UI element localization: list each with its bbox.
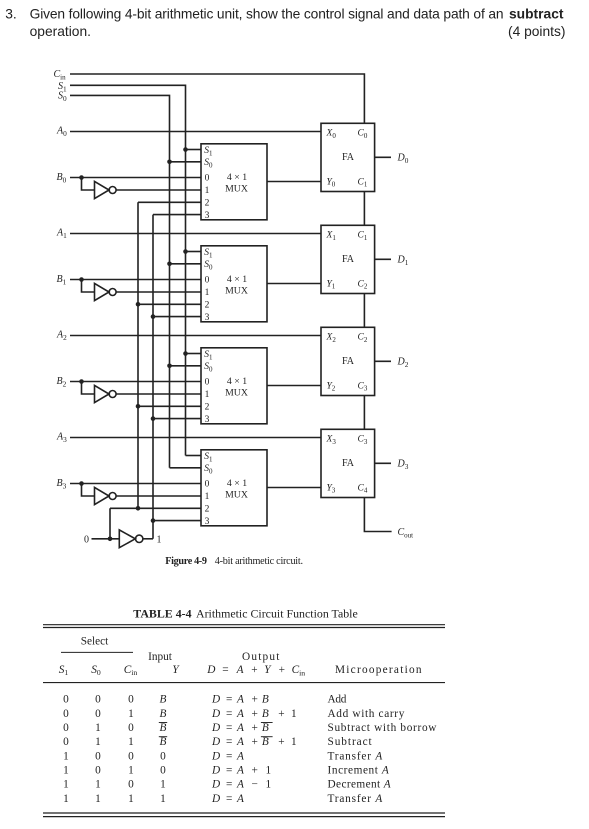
MUX1 pin label 3 xyxy=(205,211,210,221)
svg-text:2: 2 xyxy=(205,301,210,311)
MUX2 pin label S1 xyxy=(204,248,213,259)
svg-text:1: 1 xyxy=(205,390,210,400)
svg-text:Subtract with borrow: Subtract with borrow xyxy=(328,722,438,734)
node S1 bus junction at MUX1 xyxy=(183,147,188,152)
wire MUX3 pin 3 stub xyxy=(153,418,201,420)
MUX4 pin label 0 xyxy=(205,480,210,490)
table header rule xyxy=(43,682,445,684)
node S0 bus junction at MUX3 xyxy=(167,364,172,369)
svg-text:S1: S1 xyxy=(204,146,213,157)
wire constant-1 bus xyxy=(152,215,154,539)
svg-text:0: 0 xyxy=(63,736,69,748)
wire sum output D2 xyxy=(375,360,391,362)
wire B0 tap to inverter xyxy=(82,178,95,191)
FA1 pin label C0 (carry in) xyxy=(358,129,368,140)
svg-text:0: 0 xyxy=(63,694,69,706)
FA1 pin label X0 xyxy=(326,129,337,140)
svg-text:MUX: MUX xyxy=(225,489,248,500)
label Cout xyxy=(398,527,414,539)
MUX2 pin label 0 xyxy=(205,276,210,286)
FA1 label xyxy=(342,152,355,163)
svg-text:0: 0 xyxy=(95,694,101,706)
svg-text:Output: Output xyxy=(242,651,281,663)
figure caption xyxy=(165,556,302,567)
FA4 pin label X3 xyxy=(326,435,337,446)
svg-text:Cin: Cin xyxy=(54,69,67,81)
MUX3 pin label 2 xyxy=(205,403,210,413)
full adder FA1 body xyxy=(321,123,375,191)
MUX2 pin label S0 xyxy=(204,260,213,271)
svg-text:S1: S1 xyxy=(204,248,213,259)
MUX4 pin label 1 xyxy=(205,492,210,502)
svg-text:Cout: Cout xyxy=(398,527,414,539)
svg-text:subtract: subtract xyxy=(509,6,564,21)
svg-text:1: 1 xyxy=(95,793,101,805)
svg-text:D3: D3 xyxy=(397,459,409,471)
MUX4 label 4x1 MUX xyxy=(225,478,248,501)
svg-text:S0: S0 xyxy=(204,158,213,169)
label Cin xyxy=(54,69,67,81)
FA2 label xyxy=(342,254,355,265)
wire constant-0 bus xyxy=(137,202,139,508)
MUX2 label 4x1 MUX xyxy=(225,274,248,297)
svg-text:1: 1 xyxy=(63,750,69,762)
wire MUX1 select S0 stub xyxy=(170,161,202,163)
svg-text:Microoperation: Microoperation xyxy=(335,664,423,676)
svg-text:3: 3 xyxy=(205,211,210,221)
svg-text:Y1: Y1 xyxy=(327,279,336,290)
label constant 1 xyxy=(157,534,162,545)
label D2 xyxy=(397,357,409,369)
table row 7: 1 1 0 xyxy=(63,779,391,791)
wire MUX2 pin 2 stub xyxy=(138,303,201,305)
svg-text:Given following 4-bit arithmet: Given following 4-bit arithmetic unit, s… xyxy=(30,6,504,21)
node 0-bus junction at MUX3 xyxy=(136,404,141,409)
label S1 xyxy=(58,81,67,93)
svg-text:4 × 1: 4 × 1 xyxy=(227,478,247,489)
MUX3 label 4x1 MUX xyxy=(225,376,248,399)
svg-text:3.: 3. xyxy=(5,6,17,21)
svg-text:C2: C2 xyxy=(358,333,368,344)
svg-text:B: B xyxy=(160,694,167,706)
svg-text:FA: FA xyxy=(342,356,355,367)
wire B0 to MUX1 pin 0 xyxy=(70,177,201,179)
svg-text:Add: Add xyxy=(328,694,347,706)
svg-text:B: B xyxy=(160,736,167,748)
svg-text:4 × 1: 4 × 1 xyxy=(227,274,247,285)
MUX1 pin label S1 xyxy=(204,146,213,157)
svg-text:X2: X2 xyxy=(326,333,337,344)
svg-text:4-bit arithmetic circuit.: 4-bit arithmetic circuit. xyxy=(215,556,303,567)
svg-text:Select: Select xyxy=(81,635,109,647)
label B0 xyxy=(57,172,67,184)
inverter (NOT gate) for B3 xyxy=(95,487,117,504)
svg-text:1: 1 xyxy=(128,708,134,720)
problem statement text xyxy=(5,6,565,39)
svg-text:Add with carry: Add with carry xyxy=(328,708,406,720)
wire carry C3 from FA3 to FA4 xyxy=(363,396,365,430)
svg-text:D=A−1: D=A−1 xyxy=(211,779,271,791)
svg-text:X1: X1 xyxy=(326,231,337,242)
wire A2 to FA3 input X2 xyxy=(70,335,321,337)
label constant 0 xyxy=(84,534,89,545)
svg-text:D=A+Y+Cin: D=A+Y+Cin xyxy=(206,664,305,678)
svg-text:FA: FA xyxy=(342,152,355,163)
inverter (NOT gate) for B1 xyxy=(95,283,117,300)
FA3 pin label X2 xyxy=(326,333,337,344)
table title xyxy=(133,607,357,621)
svg-text:X3: X3 xyxy=(326,435,337,446)
svg-text:C4: C4 xyxy=(358,483,368,494)
node B0 junction xyxy=(79,175,84,180)
FA4 pin label C4 (carry out) xyxy=(358,483,368,494)
svg-text:2: 2 xyxy=(205,403,210,413)
svg-text:D0: D0 xyxy=(397,153,409,165)
FA3 label xyxy=(342,356,355,367)
table header Select xyxy=(61,635,133,652)
wire MUX1 select S1 stub xyxy=(186,149,202,151)
node B3 junction xyxy=(79,481,84,486)
MUX1 pin label 0 xyxy=(205,174,210,184)
wire sum output D0 xyxy=(375,156,391,158)
mux U2 4x1 MUX body xyxy=(201,246,267,322)
svg-text:X0: X0 xyxy=(326,129,337,140)
table row 4: 0 1 1 xyxy=(63,736,372,748)
MUX1 pin label 2 xyxy=(205,199,210,209)
svg-text:2: 2 xyxy=(205,505,210,515)
svg-text:FA: FA xyxy=(342,458,355,469)
svg-text:D=A+B+1: D=A+B+1 xyxy=(211,708,297,720)
svg-text:C1: C1 xyxy=(358,231,368,242)
svg-text:Increment A: Increment A xyxy=(328,765,390,777)
svg-text:1: 1 xyxy=(63,779,69,791)
wire MUX2 select S0 stub xyxy=(170,263,202,265)
svg-text:0: 0 xyxy=(128,750,134,762)
svg-text:D=A+1: D=A+1 xyxy=(211,765,271,777)
svg-text:1: 1 xyxy=(157,534,162,545)
FA4 pin label Y3 xyxy=(327,483,336,494)
label A1 xyxy=(56,228,67,240)
full adder FA2 body xyxy=(321,225,375,293)
svg-text:Cin: Cin xyxy=(124,664,138,677)
wire carry C1 from FA1 to FA2 xyxy=(363,192,365,226)
label D3 xyxy=(397,459,409,471)
MUX4 pin label 2 xyxy=(205,505,210,515)
mux U4 4x1 MUX body xyxy=(201,450,267,526)
wire carry out C4 from FA4 xyxy=(364,498,391,532)
node 1-bus junction at MUX4 xyxy=(151,518,156,523)
wire inverted B3 to MUX4 pin 1 xyxy=(116,495,201,497)
wire constant 1 to 1-bus xyxy=(143,538,153,540)
svg-text:Y2: Y2 xyxy=(327,381,336,392)
table bottom double rule xyxy=(43,813,445,817)
table top double rule xyxy=(43,625,445,628)
MUX2 pin label 2 xyxy=(205,301,210,311)
label A0 xyxy=(56,126,67,138)
svg-text:0: 0 xyxy=(128,779,134,791)
wire MUX4 pin 3 stub xyxy=(153,520,201,522)
wire A3 to FA4 input X3 xyxy=(70,437,321,439)
svg-text:B1: B1 xyxy=(57,274,67,286)
svg-text:C3: C3 xyxy=(358,435,368,446)
wire inverted B0 to MUX1 pin 1 xyxy=(116,189,201,191)
FA4 label xyxy=(342,458,355,469)
svg-text:B2: B2 xyxy=(57,376,67,388)
svg-text:(4 points): (4 points) xyxy=(508,24,566,39)
svg-text:0: 0 xyxy=(95,765,101,777)
wire MUX4 output to FA4 input Y3 xyxy=(267,487,321,489)
svg-text:0: 0 xyxy=(128,722,134,734)
svg-text:1: 1 xyxy=(205,288,210,298)
label B1 xyxy=(57,274,67,286)
node S1 bus junction at MUX2 xyxy=(183,249,188,254)
label B2 xyxy=(57,376,67,388)
table row 3: 0 1 0 xyxy=(63,722,437,734)
svg-text:A0: A0 xyxy=(56,126,67,138)
svg-text:Y0: Y0 xyxy=(327,177,336,188)
node 1-bus junction at MUX2 xyxy=(151,314,156,319)
svg-text:1: 1 xyxy=(63,765,69,777)
MUX1 label 4x1 MUX xyxy=(225,172,248,195)
svg-text:1: 1 xyxy=(95,722,101,734)
MUX3 pin label 0 xyxy=(205,378,210,388)
wire constant 0 line xyxy=(92,538,120,540)
svg-text:S0: S0 xyxy=(204,260,213,271)
svg-text:1: 1 xyxy=(205,492,210,502)
node B2 junction xyxy=(79,379,84,384)
label B3 xyxy=(57,478,67,490)
svg-text:0: 0 xyxy=(95,750,101,762)
svg-text:A3: A3 xyxy=(56,432,67,444)
svg-text:Transfer A: Transfer A xyxy=(328,793,384,805)
MUX2 pin label 3 xyxy=(205,313,210,323)
svg-text:TABLE 4-4: TABLE 4-4 xyxy=(133,607,191,621)
wire MUX3 select S0 stub xyxy=(170,365,202,367)
node 0-bus junction at MUX4 xyxy=(136,506,141,511)
node S0 bus junction at MUX1 xyxy=(167,160,172,165)
wire carry C2 from FA2 to FA3 xyxy=(363,294,365,328)
wire B3 to MUX4 pin 0 xyxy=(70,483,201,485)
wire S0 bus xyxy=(70,95,170,467)
label D1 xyxy=(397,255,409,267)
svg-text:MUX: MUX xyxy=(225,387,248,398)
wire MUX4 pin 2 stub joining 0-bus and constant 0 xyxy=(110,507,201,509)
inverter (NOT gate) for B0 xyxy=(95,181,117,198)
MUX3 pin label 3 xyxy=(205,415,210,425)
wire inverted B2 to MUX3 pin 1 xyxy=(116,393,201,395)
table header Input xyxy=(148,651,173,663)
FA1 pin label C1 (carry out) xyxy=(358,177,368,188)
svg-text:0: 0 xyxy=(205,480,210,490)
inverter (NOT gate) for B2 xyxy=(95,385,117,402)
svg-text:C1: C1 xyxy=(358,177,368,188)
MUX2 pin label 1 xyxy=(205,288,210,298)
svg-text:S1: S1 xyxy=(204,452,213,463)
svg-text:0: 0 xyxy=(128,694,134,706)
table row 6: 1 0 1 xyxy=(63,765,389,777)
wire B2 to MUX3 pin 0 xyxy=(70,381,201,383)
svg-text:MUX: MUX xyxy=(225,285,248,296)
svg-text:C0: C0 xyxy=(358,129,368,140)
svg-text:D1: D1 xyxy=(397,255,409,267)
wire A1 to FA2 input X1 xyxy=(70,233,321,235)
table row 2: 0 0 1 xyxy=(63,708,405,720)
svg-text:S0: S0 xyxy=(91,664,101,677)
svg-text:0: 0 xyxy=(160,750,166,762)
label D0 xyxy=(397,153,409,165)
inverter (NOT gate) making constant 1 xyxy=(119,530,143,548)
svg-text:C3: C3 xyxy=(358,381,368,392)
svg-text:D=A: D=A xyxy=(211,750,244,762)
svg-text:0: 0 xyxy=(205,378,210,388)
FA2 pin label C1 (carry in) xyxy=(358,231,368,242)
wire constant 0 up to MUX4 pin 2 xyxy=(109,508,111,539)
FA1 pin label Y0 xyxy=(327,177,336,188)
MUX3 pin label S1 xyxy=(204,350,213,361)
MUX4 pin label S1 xyxy=(204,452,213,463)
table row 5: 1 0 0 xyxy=(63,750,383,762)
mux U1 4x1 MUX body xyxy=(201,144,267,220)
wire MUX1 pin 3 stub to 1-bus xyxy=(153,214,201,216)
node S0 bus junction at MUX2 xyxy=(167,262,172,267)
svg-text:0: 0 xyxy=(63,708,69,720)
table row 8: 1 1 1 xyxy=(63,793,383,805)
MUX1 pin label S0 xyxy=(204,158,213,169)
svg-text:0: 0 xyxy=(205,174,210,184)
table row 1: 0 0 0 xyxy=(63,694,347,706)
full adder FA4 body xyxy=(321,429,375,497)
svg-text:3: 3 xyxy=(205,415,210,425)
svg-text:1: 1 xyxy=(128,736,134,748)
svg-text:1: 1 xyxy=(128,765,134,777)
wire A0 to FA1 input X0 xyxy=(70,131,321,133)
svg-text:1: 1 xyxy=(128,793,134,805)
node constant-0 junction xyxy=(108,537,113,542)
svg-text:1: 1 xyxy=(95,779,101,791)
svg-text:B0: B0 xyxy=(57,172,67,184)
wire MUX2 select S1 stub xyxy=(186,251,202,253)
svg-text:0: 0 xyxy=(95,708,101,720)
label A3 xyxy=(56,432,67,444)
wire MUX3 select S1 stub xyxy=(186,353,202,355)
svg-text:1: 1 xyxy=(205,186,210,196)
FA2 pin label Y1 xyxy=(327,279,336,290)
wire sum output D1 xyxy=(375,258,391,260)
node 0-bus junction at MUX2 xyxy=(136,302,141,307)
svg-text:S0: S0 xyxy=(204,362,213,373)
svg-text:0: 0 xyxy=(63,722,69,734)
full adder FA3 body xyxy=(321,327,375,395)
svg-text:B: B xyxy=(160,708,167,720)
svg-text:D=A+B+1: D=A+B+1 xyxy=(211,736,297,748)
svg-text:1: 1 xyxy=(160,793,166,805)
svg-text:Figure 4-9: Figure 4-9 xyxy=(165,556,207,567)
wire MUX1 pin 2 stub to 0-bus xyxy=(138,201,201,203)
wire B1 tap to inverter xyxy=(82,280,95,293)
wire MUX4 select S0 stub xyxy=(170,467,202,469)
wire B3 tap to inverter xyxy=(82,484,95,497)
wire Cin to FA1 carry input C0 xyxy=(70,74,364,123)
svg-text:Y3: Y3 xyxy=(327,483,336,494)
svg-text:2: 2 xyxy=(205,199,210,209)
svg-text:1: 1 xyxy=(95,736,101,748)
FA4 pin label C3 (carry in) xyxy=(358,435,368,446)
svg-text:Y: Y xyxy=(172,664,180,676)
table header Output xyxy=(242,651,281,663)
svg-text:Transfer A: Transfer A xyxy=(328,750,384,762)
svg-text:4 × 1: 4 × 1 xyxy=(227,376,247,387)
node S1 bus junction at MUX3 xyxy=(183,351,188,356)
MUX4 pin label S0 xyxy=(204,464,213,475)
svg-text:B3: B3 xyxy=(57,478,67,490)
svg-text:S1: S1 xyxy=(59,664,69,677)
svg-text:3: 3 xyxy=(205,313,210,323)
FA3 pin label Y2 xyxy=(327,381,336,392)
wire MUX1 output to FA1 input Y0 xyxy=(267,181,321,183)
FA3 pin label C3 (carry out) xyxy=(358,381,368,392)
node B1 junction xyxy=(79,277,84,282)
svg-text:1: 1 xyxy=(160,779,166,791)
wire MUX4 select S1 stub xyxy=(186,455,202,457)
svg-text:FA: FA xyxy=(342,254,355,265)
MUX3 pin label S0 xyxy=(204,362,213,373)
svg-text:Subtract: Subtract xyxy=(328,736,373,748)
svg-text:D=A+B: D=A+B xyxy=(211,722,269,734)
svg-text:D=A+B: D=A+B xyxy=(211,694,269,706)
wire B2 tap to inverter xyxy=(82,382,95,395)
svg-text:A1: A1 xyxy=(56,228,67,240)
svg-text:S1: S1 xyxy=(204,350,213,361)
svg-text:operation.: operation. xyxy=(30,24,91,39)
svg-text:Input: Input xyxy=(148,651,173,663)
svg-text:4 × 1: 4 × 1 xyxy=(227,172,247,183)
wire MUX3 output to FA3 input Y2 xyxy=(267,385,321,387)
wire MUX3 pin 2 stub xyxy=(138,405,201,407)
svg-text:A2: A2 xyxy=(56,330,67,342)
svg-text:D2: D2 xyxy=(397,357,409,369)
svg-text:B: B xyxy=(160,722,167,734)
svg-text:0: 0 xyxy=(160,765,166,777)
wire B1 to MUX2 pin 0 xyxy=(70,279,201,281)
wire MUX2 pin 3 stub xyxy=(153,316,201,318)
FA2 pin label X1 xyxy=(326,231,337,242)
wire inverted B1 to MUX2 pin 1 xyxy=(116,291,201,293)
svg-text:Arithmetic Circuit Function Ta: Arithmetic Circuit Function Table xyxy=(196,607,358,621)
node 1-bus junction at MUX3 xyxy=(151,416,156,421)
MUX1 pin label 1 xyxy=(205,186,210,196)
svg-text:0: 0 xyxy=(84,534,89,545)
svg-text:S0: S0 xyxy=(204,464,213,475)
label A2 xyxy=(56,330,67,342)
wire S1 bus xyxy=(70,85,186,455)
svg-text:MUX: MUX xyxy=(225,183,248,194)
label S0 xyxy=(58,91,67,103)
MUX4 pin label 3 xyxy=(205,517,210,527)
svg-text:0: 0 xyxy=(205,276,210,286)
svg-text:3: 3 xyxy=(205,517,210,527)
svg-text:D=A: D=A xyxy=(211,793,244,805)
FA2 pin label C2 (carry out) xyxy=(358,279,368,290)
FA3 pin label C2 (carry in) xyxy=(358,333,368,344)
MUX3 pin label 1 xyxy=(205,390,210,400)
wire MUX2 output to FA2 input Y1 xyxy=(267,283,321,285)
mux U3 4x1 MUX body xyxy=(201,348,267,424)
svg-text:1: 1 xyxy=(63,793,69,805)
svg-text:Decrement A: Decrement A xyxy=(328,779,392,791)
table column headers xyxy=(59,664,423,678)
svg-text:C2: C2 xyxy=(358,279,368,290)
wire sum output D3 xyxy=(375,462,391,464)
